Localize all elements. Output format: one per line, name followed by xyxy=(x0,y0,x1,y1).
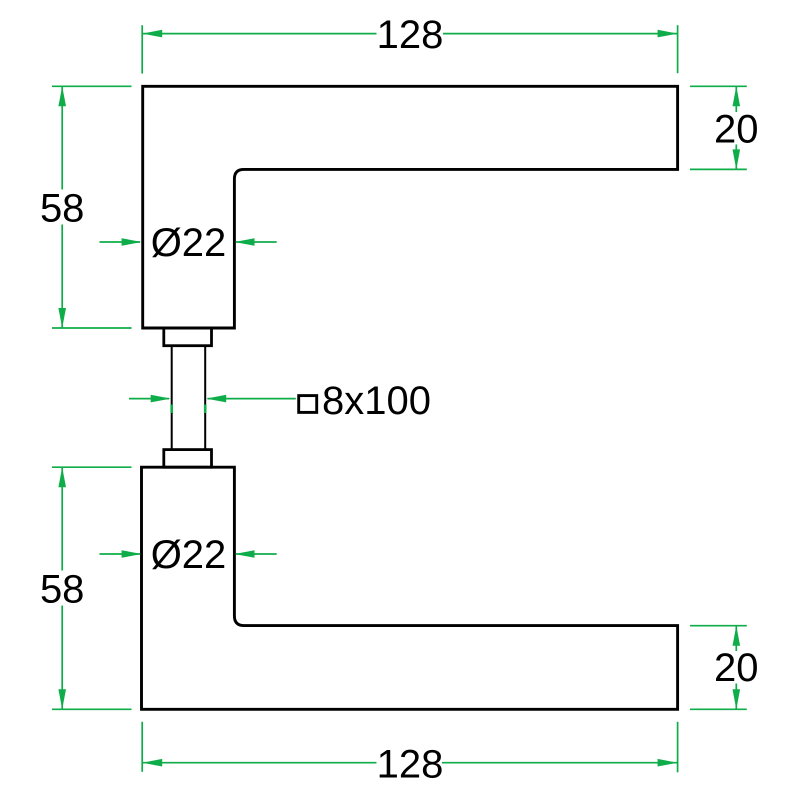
dim 58 bottom-left: lower extension line xyxy=(52,708,132,710)
dim 128 bottom: left extension line xyxy=(141,722,143,772)
dim 58 bottom-left: dimension line lower segment xyxy=(61,606,63,710)
dim 128 top: right extension line xyxy=(677,25,679,73)
dim 58 top-left: dimension line upper segment xyxy=(61,86,63,189)
dim 128 top: left extension line xyxy=(141,25,143,73)
svg-text:20: 20 xyxy=(714,107,759,151)
dim 20 bottom-right: down arrowhead xyxy=(733,689,741,709)
dim 20 top-right: upper extension line xyxy=(690,85,747,87)
dim 20 bottom-right: upper extension line xyxy=(690,625,747,627)
dim 128 top: right arrowhead xyxy=(658,30,678,38)
bottom neck collar xyxy=(164,450,212,468)
dim 20 bottom-right: dimension line lower segment xyxy=(735,684,737,710)
dim 128 top: left arrowhead xyxy=(142,30,162,38)
dim 58 bottom-left: down arrowhead xyxy=(58,689,66,709)
spindle shaft right line xyxy=(204,346,206,450)
dim 128 bottom: right arrowhead xyxy=(658,759,678,767)
dim 58 top-left: up arrowhead xyxy=(58,86,66,106)
dim 20 top-right: up arrowhead xyxy=(733,86,741,106)
top neck collar xyxy=(164,328,212,346)
dim 8x100: left arrow line xyxy=(129,398,169,400)
dim 128 bottom: right extension line xyxy=(677,722,679,773)
dim 58 bottom-left: up arrowhead xyxy=(58,467,66,487)
dim 58 top-left: down arrowhead xyxy=(58,308,66,328)
dim 128 bottom: dimension line left segment xyxy=(142,762,376,764)
dim 8x100: green tick on right shaft line xyxy=(204,405,207,414)
dim 128 top: dimension line right segment xyxy=(443,33,678,35)
dim 58 top-left: upper extension line xyxy=(52,85,132,87)
svg-text:8x100: 8x100 xyxy=(322,379,431,423)
dim 128 bottom: left arrowhead xyxy=(142,759,162,767)
dim diam22 bottom: left arrow line xyxy=(100,553,141,555)
dim diam22 bottom: right arrow line xyxy=(236,553,277,555)
dim 128 bottom: dimension line right segment xyxy=(442,762,678,764)
svg-text:58: 58 xyxy=(40,187,85,231)
dim diam22 top: right arrow line xyxy=(236,241,277,243)
dim diam22 top: left arrow line xyxy=(100,241,141,243)
dim 20 top-right: down arrowhead xyxy=(733,149,741,169)
dim 20 top-right: dimension line upper segment xyxy=(735,86,737,112)
dim 20 bottom-right: dimension line upper segment xyxy=(735,626,737,651)
dim 20 top-right: dimension line lower segment xyxy=(735,145,737,170)
dim diam22 top: right-pointing arrowhead xyxy=(122,238,142,246)
dim diam22 bottom: right-pointing arrowhead xyxy=(122,550,142,558)
svg-text:Ø22: Ø22 xyxy=(151,533,227,577)
dim 58 top-left: dimension line lower segment xyxy=(61,225,63,329)
dim 58 bottom-left: dimension line upper segment xyxy=(61,467,63,570)
dim 20 bottom-right: up arrowhead xyxy=(733,626,741,646)
top lever handle outline xyxy=(143,86,678,328)
svg-text:128: 128 xyxy=(377,742,444,786)
svg-text:58: 58 xyxy=(40,568,85,612)
dim 58 bottom-left: upper extension line xyxy=(52,466,132,468)
dim diam22 bottom: left-pointing arrowhead xyxy=(235,550,255,558)
dim 128 top: dimension line left segment xyxy=(142,33,376,35)
svg-text:20: 20 xyxy=(714,646,759,690)
dim 58 top-left: lower extension line xyxy=(52,327,132,329)
dim 8x100: green tick on left shaft line xyxy=(170,405,173,414)
dim 20 top-right: lower extension line xyxy=(690,168,747,170)
svg-text:Ø22: Ø22 xyxy=(151,221,227,265)
spindle shaft left line xyxy=(171,346,173,450)
bottom lever handle outline xyxy=(142,467,678,709)
dim diam22 top: left-pointing arrowhead xyxy=(235,238,255,246)
square symbol of 8x100 label xyxy=(299,396,317,413)
dim 8x100: left-pointing arrowhead xyxy=(206,395,226,403)
svg-text:128: 128 xyxy=(377,13,444,57)
dim 8x100: right arrow line xyxy=(208,398,296,400)
dim 20 bottom-right: lower extension line xyxy=(690,708,747,710)
dim 8x100: right-pointing arrowhead xyxy=(151,395,171,403)
